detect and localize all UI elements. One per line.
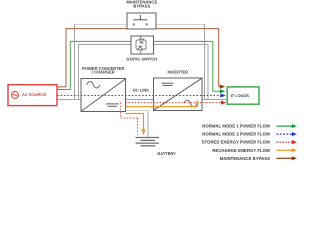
svg-text:STORED ENERGY POWER FLOW: STORED ENERGY POWER FLOW (202, 140, 271, 145)
svg-text:/ CHARGER: / CHARGER (92, 70, 115, 75)
svg-text:AC SOURCE: AC SOURCE (22, 92, 46, 97)
svg-text:BYPASS: BYPASS (133, 4, 150, 9)
svg-text:NORMAL MODE 2 POWER FLOW: NORMAL MODE 2 POWER FLOW (202, 132, 271, 137)
svg-text:STATIC SWITCH: STATIC SWITCH (126, 56, 157, 61)
svg-text:IT LOADS: IT LOADS (231, 93, 250, 98)
svg-text:RECHARGE ENERGY FLOW: RECHARGE ENERGY FLOW (212, 148, 271, 153)
svg-text:DC LINK: DC LINK (133, 87, 149, 92)
svg-text:BATTERY: BATTERY (157, 151, 176, 156)
svg-text:INVERTER: INVERTER (167, 70, 188, 75)
svg-text:NORMAL MODE 1 POWER FLOW: NORMAL MODE 1 POWER FLOW (202, 124, 271, 129)
svg-text:MAINTENANCE BYPASS: MAINTENANCE BYPASS (220, 156, 270, 161)
